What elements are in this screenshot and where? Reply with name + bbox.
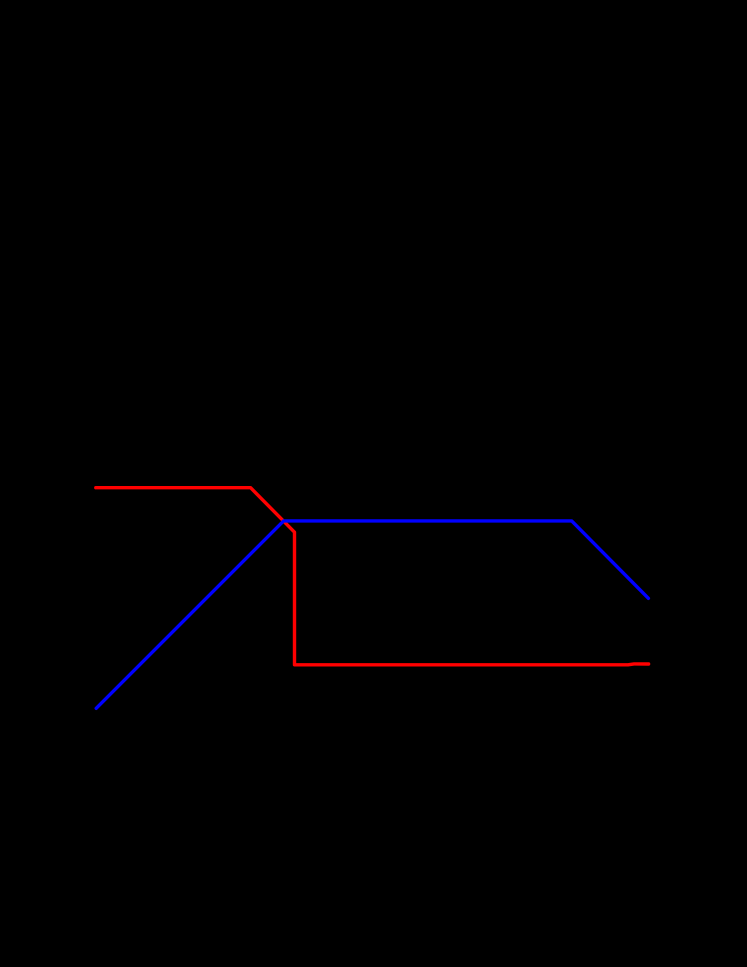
blue series line — [96, 521, 648, 708]
red series line — [96, 488, 649, 665]
